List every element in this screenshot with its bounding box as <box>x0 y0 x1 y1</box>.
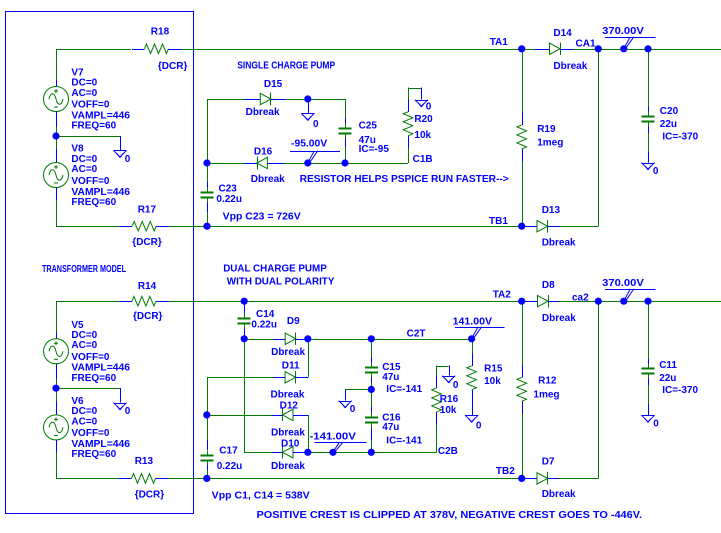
wire top row left <box>56 49 131 51</box>
svg-text:D13: D13 <box>542 205 561 216</box>
wire between V7 and V8 <box>56 127 58 149</box>
svg-text:D8: D8 <box>542 280 555 291</box>
wire V8 to bottom row <box>56 200 58 226</box>
voltage viewpoint -95.00V <box>290 139 340 162</box>
diode D13 <box>523 220 560 233</box>
svg-text:10k: 10k <box>440 405 457 416</box>
svg-text:D15: D15 <box>264 79 283 90</box>
node C14 top <box>241 298 248 305</box>
svg-text:R18: R18 <box>151 27 170 38</box>
voltage viewpoint -141.00V <box>310 431 367 450</box>
wire dual top row left <box>56 301 119 303</box>
resistor R20 <box>403 99 413 148</box>
node D9 output <box>304 335 311 342</box>
svg-text:C2T: C2T <box>407 329 426 340</box>
svg-text:10k: 10k <box>414 130 431 141</box>
svg-text:{DCR}: {DCR} <box>158 61 188 72</box>
svg-text:1meg: 1meg <box>537 138 563 149</box>
resistor R19 <box>517 49 527 226</box>
diode D10 <box>271 446 308 459</box>
wire dual bottom row left <box>56 478 119 480</box>
svg-text:WITH DUAL POLARITY: WITH DUAL POLARITY <box>227 277 335 288</box>
diode D9 <box>273 333 308 346</box>
wire D11 row left <box>207 377 273 379</box>
node between V7 and V8 <box>52 132 59 139</box>
wire D12 row left <box>207 415 271 417</box>
svg-text:VOFF=0: VOFF=0 <box>71 100 110 111</box>
ground 0 at C15/C16 midpoint <box>339 389 352 408</box>
svg-text:ca2: ca2 <box>572 293 589 304</box>
svg-text:FREQ=60: FREQ=60 <box>71 449 116 460</box>
wire top row middle <box>181 49 535 51</box>
node C17 bottom <box>203 475 210 482</box>
wire bottom row middle <box>169 226 524 228</box>
svg-text:AC=0: AC=0 <box>71 88 97 99</box>
diode D16 <box>245 157 284 170</box>
svg-text:AC=0: AC=0 <box>71 164 97 175</box>
wire V6 to bottom row <box>56 453 58 479</box>
svg-text:{DCR}: {DCR} <box>132 237 162 248</box>
svg-text:D16: D16 <box>254 147 273 158</box>
svg-text:0: 0 <box>426 102 432 113</box>
svg-text:0.22u: 0.22u <box>251 320 277 331</box>
svg-text:R15: R15 <box>484 364 503 375</box>
ground 0 at C20 <box>642 163 655 170</box>
svg-text:DUAL CHARGE PUMP: DUAL CHARGE PUMP <box>223 264 327 275</box>
diode D14 <box>535 43 573 56</box>
svg-text:22u: 22u <box>660 119 677 130</box>
svg-text:AC=0: AC=0 <box>71 340 97 351</box>
AC source V8 <box>44 149 69 200</box>
wire dual top row right <box>559 301 721 303</box>
svg-text:D10: D10 <box>281 438 300 449</box>
svg-text:22u: 22u <box>659 373 676 384</box>
svg-text:Vpp C23 = 726V: Vpp C23 = 726V <box>223 212 301 223</box>
wire dual top row middle <box>168 301 525 303</box>
wire C25 column bottom <box>345 147 347 163</box>
resistor R15 <box>467 339 477 415</box>
capacitor C23 <box>201 163 214 226</box>
svg-text:C25: C25 <box>359 120 378 131</box>
svg-text:C1B: C1B <box>413 154 433 165</box>
svg-text:POSITIVE CREST IS CLIPPED AT 3: POSITIVE CREST IS CLIPPED AT 378V, NEGAT… <box>257 510 643 521</box>
svg-text:VOFF=0: VOFF=0 <box>71 176 110 187</box>
node C14 bottom <box>241 335 248 342</box>
node C23 top / D16 row <box>203 159 210 166</box>
wire D16 row left <box>207 163 245 165</box>
svg-text:370.00V: 370.00V <box>602 278 644 289</box>
wire D9 row left <box>244 339 273 341</box>
svg-text:R14: R14 <box>138 281 157 292</box>
svg-text:VOFF=0: VOFF=0 <box>71 428 110 439</box>
wire D7 to ca2 column <box>559 478 598 480</box>
node C25 bottom <box>341 159 348 166</box>
ground 0 at R20 top <box>415 88 428 107</box>
svg-text:IC=-141: IC=-141 <box>386 384 422 395</box>
wire C2B row <box>308 452 437 454</box>
wire D15 row to C25 corner <box>286 99 346 101</box>
svg-text:FREQ=60: FREQ=60 <box>71 197 116 208</box>
node -141V probe point <box>329 449 336 456</box>
AC source V7 <box>44 80 69 127</box>
resistor R13 <box>119 474 168 484</box>
svg-text:R12: R12 <box>538 376 557 387</box>
svg-text:D9: D9 <box>287 316 300 327</box>
node TB1 <box>518 223 525 230</box>
svg-text:C2B: C2B <box>438 446 458 457</box>
capacitor C16 <box>365 389 378 452</box>
resistor R14 <box>119 296 168 306</box>
ground 0 at V7/V8 midpoint <box>114 150 127 157</box>
node TB2 <box>518 475 525 482</box>
svg-text:R19: R19 <box>537 124 556 135</box>
svg-text:TA2: TA2 <box>493 289 512 300</box>
svg-text:47u: 47u <box>382 422 399 433</box>
wire D13 to CA1 column <box>560 226 598 228</box>
svg-text:R13: R13 <box>135 456 154 467</box>
AC source V5 <box>44 333 69 380</box>
resistor R17 <box>120 221 169 231</box>
svg-text:Dbreak: Dbreak <box>271 390 305 401</box>
svg-text:D14: D14 <box>553 28 572 39</box>
ground 0 at V5/V6 midpoint <box>114 403 127 410</box>
node D12 row / C17 top <box>203 411 210 418</box>
wire top row right <box>573 49 721 51</box>
wire bottom row left <box>56 226 120 228</box>
capacitor C14 <box>238 301 251 339</box>
node D15 output <box>304 95 311 102</box>
diode D7 <box>523 472 559 485</box>
wire R20 column bottom <box>408 148 410 163</box>
node between V5 and V6 <box>52 385 59 392</box>
svg-text:Dbreak: Dbreak <box>251 174 285 185</box>
wire C20 column <box>648 49 650 107</box>
svg-text:R20: R20 <box>414 114 433 125</box>
svg-text:47u: 47u <box>382 372 399 383</box>
svg-text:Vpp C1, C14 = 538V: Vpp C1, C14 = 538V <box>212 491 310 502</box>
wire D16 row right (net C1B) <box>284 163 409 165</box>
voltage viewpoint 370.00V dual <box>602 278 656 299</box>
wire C2T row <box>308 339 472 341</box>
resistor R16 <box>432 375 442 452</box>
capacitor C11 <box>642 359 655 415</box>
svg-text:0: 0 <box>653 166 659 177</box>
svg-text:Dbreak: Dbreak <box>542 489 576 500</box>
svg-text:0: 0 <box>453 380 459 391</box>
svg-text:{DCR}: {DCR} <box>133 311 163 322</box>
svg-text:D7: D7 <box>542 456 555 467</box>
node ca2 <box>595 298 602 305</box>
node 370V probe dual <box>620 298 627 305</box>
diode D12 <box>271 409 308 422</box>
svg-text:SINGLE CHARGE PUMP: SINGLE CHARGE PUMP <box>237 61 335 72</box>
ground 0 at R15 bottom <box>465 415 478 422</box>
node C11 tap <box>644 298 651 305</box>
AC source V6 <box>44 402 69 453</box>
svg-text:0: 0 <box>350 404 356 415</box>
wire dual bottom row middle <box>168 478 526 480</box>
capacitor C17 <box>200 415 213 479</box>
voltage viewpoint 141.00V <box>453 316 505 337</box>
resistor R18 <box>132 44 181 54</box>
node C23 bottom <box>203 223 210 230</box>
capacitor C20 <box>642 107 655 163</box>
svg-text:AC=0: AC=0 <box>71 416 97 427</box>
svg-text:Dbreak: Dbreak <box>271 347 305 358</box>
svg-text:VOFF=0: VOFF=0 <box>71 352 110 363</box>
resistor R12 <box>517 301 527 478</box>
svg-text:C14: C14 <box>256 309 275 320</box>
wire V7 column top <box>56 49 58 80</box>
svg-text:1meg: 1meg <box>533 390 559 401</box>
svg-text:Dbreak: Dbreak <box>246 107 280 118</box>
wire C11 column <box>648 301 650 359</box>
svg-text:0.22u: 0.22u <box>217 461 243 472</box>
wire D9 node down to D11 <box>308 339 310 378</box>
svg-text:{DCR}: {DCR} <box>135 490 165 501</box>
wire C25 column top <box>345 99 347 118</box>
transformer model box <box>6 12 194 514</box>
node TA2 <box>518 298 525 305</box>
ground 0 at D15 output <box>301 99 314 121</box>
svg-text:TB2: TB2 <box>496 466 515 477</box>
svg-text:D11: D11 <box>282 361 300 372</box>
svg-text:TB1: TB1 <box>489 216 508 227</box>
wire C14 bottom down to D10 row <box>244 339 246 453</box>
svg-text:Dbreak: Dbreak <box>271 428 305 439</box>
node CA1 <box>595 45 602 52</box>
svg-text:IC=-141: IC=-141 <box>386 436 422 447</box>
svg-text:141.00V: 141.00V <box>453 316 493 327</box>
svg-text:-141.00V: -141.00V <box>310 431 357 442</box>
wire R16 top hook <box>436 366 438 376</box>
node C15/C16 midpoint <box>368 386 375 393</box>
svg-text:TA1: TA1 <box>490 37 509 48</box>
wire between V5 and V6 <box>56 379 58 402</box>
wire R20 top hook <box>408 88 410 100</box>
node D10 output <box>304 449 311 456</box>
wire D11 left corner down <box>207 377 209 415</box>
svg-text:0: 0 <box>313 119 319 130</box>
wire ca2 column vertical <box>598 301 600 478</box>
wire D10 row left <box>244 452 271 454</box>
svg-text:FREQ=60: FREQ=60 <box>71 373 116 384</box>
diode D8 <box>526 295 560 308</box>
svg-text:C20: C20 <box>660 106 679 117</box>
svg-text:0: 0 <box>476 421 482 432</box>
wire CA1 column vertical <box>598 49 600 226</box>
svg-text:RESISTOR HELPS PSPICE RUN FAST: RESISTOR HELPS PSPICE RUN FASTER--> <box>300 174 509 185</box>
node C20 tap <box>644 45 651 52</box>
node TA1 <box>518 45 525 52</box>
node C16 bottom <box>368 449 375 456</box>
svg-text:CA1: CA1 <box>576 39 596 50</box>
svg-text:0: 0 <box>653 418 659 429</box>
diode D11 <box>273 371 308 384</box>
node -95V probe point <box>304 159 311 166</box>
svg-text:C17: C17 <box>219 446 238 457</box>
diode D15 <box>245 93 286 106</box>
node C2T right / R15 top <box>468 335 475 342</box>
svg-text:R17: R17 <box>138 205 157 216</box>
wire D12 right corner down to D10 row <box>308 415 310 452</box>
wire V5 column top <box>56 301 58 332</box>
svg-text:FREQ=60: FREQ=60 <box>71 121 116 132</box>
svg-text:TRANSFORMER MODEL: TRANSFORMER MODEL <box>42 264 126 275</box>
node C15 top <box>368 335 375 342</box>
svg-text:IC=-370: IC=-370 <box>662 385 698 396</box>
svg-text:IC=-370: IC=-370 <box>662 132 698 143</box>
svg-text:370.00V: 370.00V <box>602 26 644 37</box>
node 370V probe top <box>620 45 627 52</box>
svg-text:0.22u: 0.22u <box>216 194 242 205</box>
svg-text:IC=-95: IC=-95 <box>359 144 390 155</box>
svg-text:10k: 10k <box>484 376 501 387</box>
voltage viewpoint 370.00V top <box>602 26 656 47</box>
svg-text:0: 0 <box>125 154 131 165</box>
ground 0 at C11 <box>642 415 655 422</box>
svg-text:-95.00V: -95.00V <box>291 139 328 150</box>
svg-text:Dbreak: Dbreak <box>553 61 587 72</box>
svg-text:0: 0 <box>125 406 131 417</box>
wire D15 row horizontal <box>207 99 245 101</box>
capacitor C15 <box>365 339 378 390</box>
svg-text:Dbreak: Dbreak <box>271 461 305 472</box>
ground 0 at R16 top <box>442 366 455 383</box>
wire D15 row left vertical <box>207 99 209 163</box>
svg-text:C11: C11 <box>659 360 677 371</box>
svg-text:D12: D12 <box>280 400 299 411</box>
svg-text:R16: R16 <box>440 394 459 405</box>
svg-text:Dbreak: Dbreak <box>542 313 576 324</box>
wire mid-tap to ground <box>56 136 120 138</box>
svg-text:Dbreak: Dbreak <box>542 237 576 248</box>
svg-text:C23: C23 <box>219 184 238 195</box>
capacitor C25 <box>339 118 352 147</box>
wire mid-tap V5/V6 to ground <box>56 388 120 390</box>
wire midpoint to ground hook <box>345 389 371 391</box>
